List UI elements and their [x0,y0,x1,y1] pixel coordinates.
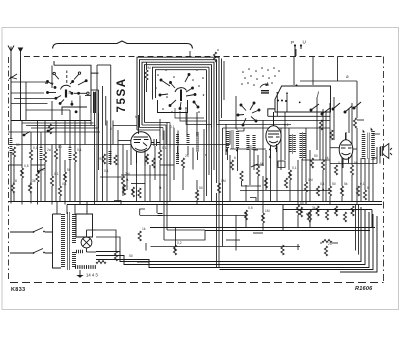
svg-text:3k: 3k [32,179,36,183]
cap C-V1 [151,139,160,146]
svg-text:0,1: 0,1 [162,146,167,150]
coil L-pad [109,151,112,164]
switch dots [33,231,45,254]
wire B+ return 5 [340,216,377,272]
svg-text:a: a [346,74,349,79]
svg-text:0,5: 0,5 [248,206,253,210]
wire [146,62,148,92]
svg-text:50: 50 [248,145,252,149]
svg-text:0,1: 0,1 [54,172,59,176]
terminal strip [75,265,96,269]
OPT winding a [362,134,366,160]
wire v372 [371,210,373,228]
agc arrows [20,127,374,251]
wire v-left group [14,66,99,202]
resistor bank mid [96,150,332,264]
resistor bank right [213,52,366,220]
speaker LS [381,144,392,159]
bandswitch S1 box [54,61,99,113]
MAINFRAME [9,57,384,283]
svg-text:50: 50 [354,161,358,165]
lamp box [76,214,93,237]
tube V1 [131,115,151,166]
svg-text:0,1: 0,1 [104,169,109,173]
coil L-ant1 [10,138,13,153]
svg-text:2M: 2M [146,66,151,70]
cap C-mid [158,214,163,216]
coil L-ant2 [40,147,43,160]
IFT2 winding a2 [303,133,306,159]
wire bus y227 [150,227,375,229]
resistor bank left [11,124,76,196]
svg-text:1M: 1M [308,178,313,182]
resistor R-osc [145,70,148,80]
svg-text:50: 50 [129,254,133,258]
value labels noise [15,48,369,258]
coil L-osc2 [187,134,190,146]
svg-text:0,1: 0,1 [62,182,67,186]
svg-text:8: 8 [15,179,17,183]
power transformer T1 secondary a [72,214,76,244]
wire bus y132 [8,131,100,133]
tuner shield box outer [137,57,219,130]
tube V3 [339,132,353,168]
svg-text:50: 50 [332,182,336,186]
box grid V2 lower [268,109,331,116]
cap C-dial [261,91,269,93]
OPT winding b [371,131,375,160]
mains switch b [10,249,43,254]
wire bus y144 [8,144,230,146]
bandswitch S1 contacts [45,71,89,113]
svg-text:0,5: 0,5 [24,164,29,168]
IFT2 core [302,132,304,160]
bandswitch S2 rotor [175,88,187,101]
IFT2b core [292,134,294,154]
svg-text:6: 6 [367,186,369,190]
OPT core [368,133,369,160]
antenna switch [9,74,17,79]
svg-text:50: 50 [16,143,20,147]
tube V2 [266,112,281,158]
arrow V2k [268,155,272,159]
switch arm left1 [23,128,54,173]
coil L-ant3 [69,147,72,160]
svg-text:R1606: R1606 [355,286,373,292]
svg-text:2M: 2M [125,172,130,176]
coil L-osc3 [196,133,199,153]
agc arrows lower-right [299,208,355,213]
wire bus y128 [31,113,99,128]
power transformer T1 secondary b [72,252,76,268]
svg-text:1M: 1M [221,179,226,183]
wire v283 [282,205,284,231]
svg-text:0,1: 0,1 [338,161,343,165]
svg-text:0,1: 0,1 [292,166,297,170]
terminal dots row [277,100,287,103]
svg-text:50: 50 [260,162,264,166]
switch S3 contacts [237,102,260,126]
wire bus y209 [283,209,372,211]
wire bus y204 [67,204,382,206]
wire bus y201 [9,201,383,203]
svg-text:0,1: 0,1 [170,125,175,129]
svg-text:K833: K833 [11,287,26,293]
power transformer T1 primary [61,214,65,268]
chassis brace [53,41,193,49]
svg-text:e: e [205,153,207,157]
box grid V2 [275,86,331,112]
svg-text:0,2: 0,2 [177,241,182,245]
resistor bank lower-right [299,206,354,222]
bandswitch S2 contacts [159,74,199,110]
wire tie [113,125,137,127]
dots field tuner [155,69,204,113]
svg-text:2k: 2k [325,156,329,160]
fuse block [76,250,84,253]
wire B+ return 1 [96,207,361,262]
svg-text:25: 25 [328,242,332,246]
IFT1 winding b [236,131,239,148]
wire B+ return 2 [96,210,365,265]
tuner inner shield [153,67,210,133]
IFT2 winding a [299,133,302,159]
pilot lamp [81,230,92,252]
IFT1 winding a [226,131,229,148]
svg-text:75SA: 75SA [116,77,128,112]
IFT2 winding b [252,135,255,150]
svg-text:50: 50 [67,168,71,172]
wire bus y230 [205,230,370,232]
svg-text:0,1: 0,1 [360,182,365,186]
coil L-osc1 [176,134,179,146]
svg-text:8: 8 [110,127,112,131]
svg-text:U: U [303,40,306,45]
switch S4 contacts [310,102,361,115]
frame top dashed [24,56,383,58]
svg-text:6: 6 [234,156,236,160]
svg-text:0,1: 0,1 [77,148,82,152]
wire B+ return 3 [96,212,369,268]
svg-text:50: 50 [300,201,304,205]
svg-text:1M: 1M [265,209,270,213]
IFT2b winding a [289,135,292,153]
bus ground stubs [11,202,95,205]
wire B+ return 4 [220,214,374,270]
S1 inner box [62,107,87,115]
wire bus y125.5 [26,125,96,127]
svg-text:5k: 5k [344,182,348,186]
IFT2b winding b [293,135,296,153]
svg-text:3k: 3k [312,206,316,210]
svg-text:50: 50 [58,145,62,149]
IFT1 core [232,130,233,149]
tuner shield box 4 [145,65,212,128]
choke winding [246,135,249,150]
PU terminals [294,44,302,56]
box V2 inner dot [296,84,298,86]
svg-text:d: d [236,127,238,131]
wire bus y120 [11,120,91,122]
svg-text:P: P [291,40,294,45]
tuner cable staircase [137,108,211,148]
antenna A1 [8,46,14,58]
tuner shield box 2 [140,60,217,128]
dots field dial [241,67,280,86]
tuner shield box 3 [142,62,214,125]
svg-text:0,1: 0,1 [33,146,38,150]
ground arrow [78,270,82,277]
frame right dash-dot [383,57,385,283]
coil L-osc4 [176,153,179,165]
wire h-group upper [11,81,380,175]
frame bottom dashed [10,282,384,284]
T1 frame [45,214,61,268]
switch S3 arc [260,83,268,88]
frame left dash-dot [8,57,10,282]
antenna feed wires [11,57,21,201]
svg-text:25: 25 [185,154,189,158]
svg-text:50: 50 [199,186,203,190]
svg-text:0,1: 0,1 [284,123,289,127]
bandswitch S1 rotor [61,85,71,97]
wire bus y123 [22,122,94,124]
svg-text:4: 4 [86,209,88,213]
svg-text:2a: 2a [47,148,51,152]
wire h-group lower [8,161,338,262]
svg-text:a: a [217,48,219,52]
mains switch a [10,228,43,233]
svg-text:b: b [135,115,137,119]
antenna A2 [19,48,23,57]
wire v-right group [204,49,380,268]
tuner inner box [158,100,188,113]
svg-text:1k: 1k [142,227,146,231]
wire v-mid group [97,51,197,240]
svg-text:14 4 3: 14 4 3 [86,273,98,278]
svg-text:25: 25 [98,157,102,161]
svg-text:0,1: 0,1 [320,182,325,186]
power transformer T1 core [68,212,70,270]
svg-text:50: 50 [314,154,318,158]
